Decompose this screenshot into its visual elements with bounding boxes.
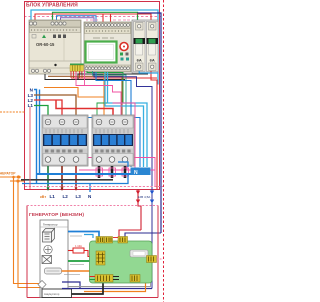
wire gen blue second	[84, 235, 93, 239]
labels L1 L2 L3 N bottom	[40, 194, 92, 199]
svg-text:Генератор: Генератор	[43, 223, 58, 227]
relay OR-60-15 top terminals	[29, 22, 66, 25]
PCB bottom-right connector	[130, 275, 140, 283]
svg-text:N: N	[134, 170, 138, 176]
relay OR-60-15 body	[29, 20, 81, 74]
controller bottom terminals	[85, 67, 129, 70]
svg-text:1 10А: 1 10А	[75, 244, 82, 248]
svg-text:12В 4,5А: 12В 4,5А	[138, 195, 152, 199]
wire L1 green	[34, 106, 48, 117]
motor circle	[44, 245, 52, 253]
wire pink dashed right	[157, 258, 164, 260]
relay lower dot	[54, 64, 56, 66]
PCB relay	[130, 250, 148, 257]
svg-text:ГЕНЕРАТОР (БЕНЗИН): ГЕНЕРАТОР (БЕНЗИН)	[29, 212, 84, 218]
wire red stub pcb	[113, 237, 118, 239]
fuse F1	[68, 244, 90, 257]
wire red top bus	[35, 14, 151, 23]
wire pink dashed mid	[25, 186, 163, 188]
wire orange down left A	[14, 177, 41, 284]
breaker QF2	[147, 22, 159, 72]
wire orange down left B	[18, 181, 40, 288]
wire blue lower	[22, 162, 128, 192]
controller LCD	[86, 42, 117, 63]
generator inner unit	[40, 220, 68, 298]
wire navy under pcb	[62, 288, 152, 290]
svg-text:6A: 6A	[150, 58, 155, 63]
controller knob	[120, 43, 128, 51]
PCB inner terminal	[96, 251, 105, 265]
battery box	[42, 289, 72, 298]
pink terminal wraps	[96, 168, 129, 176]
wire L2 red	[34, 100, 62, 116]
breaker QF1	[134, 22, 146, 72]
wire green controller out	[87, 71, 123, 116]
wire cyan to N	[105, 72, 147, 167]
wire blue top	[57, 16, 97, 23]
contactor KM1	[42, 115, 88, 166]
controller tiny text	[93, 37, 114, 39]
wire blue N bus thick	[37, 173, 132, 175]
wire orange under pcb	[84, 279, 146, 292]
svg-text:ГЕНЕРАТОР: ГЕНЕРАТОР	[0, 172, 16, 176]
wire navy controller out	[94, 72, 152, 289]
svg-text:кВт: кВт	[40, 195, 46, 199]
wire red vert left	[29, 107, 31, 189]
svg-text:L3: L3	[76, 194, 82, 199]
wire L1 out green	[47, 166, 49, 189]
wire L3 brown	[34, 95, 76, 116]
wire pink controls	[45, 70, 155, 187]
wire red from relay terminals	[71, 71, 157, 78]
wire L3 out dark red	[75, 166, 77, 189]
wire gen orange out	[62, 270, 90, 272]
label stubs grey	[64, 236, 84, 275]
svg-text:Аккумулятор: Аккумулятор	[44, 292, 60, 296]
border dashed top	[24, 16, 163, 18]
svg-text:БЛОК УПРАВЛЕНИЯ: БЛОК УПРАВЛЕНИЯ	[26, 2, 78, 8]
wire black bus	[45, 74, 148, 80]
wire gen blue out	[68, 232, 99, 239]
wire black battery	[72, 283, 104, 295]
wire grey under pcb	[68, 263, 151, 287]
svg-text:L2: L2	[63, 194, 69, 199]
labels N L3 L2 L1	[28, 87, 34, 108]
wire gen navy stub	[62, 282, 80, 289]
wire orange bus	[44, 72, 104, 116]
controller buttons	[120, 53, 129, 61]
PCB top terminal B	[118, 237, 128, 244]
wire L2 red branch to KM2	[56, 100, 113, 116]
alternator cube	[43, 229, 55, 243]
generator box	[27, 206, 158, 298]
relay yellow terminal block	[70, 64, 84, 72]
wire teal controller out	[93, 71, 127, 116]
PCB right connector	[147, 256, 157, 263]
contactor KM2	[92, 115, 134, 166]
relay indicator icons	[32, 35, 66, 39]
svg-text:6A: 6A	[137, 58, 142, 63]
wire violet top	[61, 18, 95, 23]
PCB board	[90, 241, 153, 283]
fuel valve diamond	[38, 281, 46, 289]
battery feed red with arrows	[136, 189, 141, 230]
wire red to PCB top	[119, 230, 141, 237]
wire N blue left	[34, 90, 40, 184]
wire L2 out maroon	[61, 166, 63, 189]
coil component	[42, 256, 52, 264]
svg-text:L1: L1	[28, 103, 34, 108]
controller top terminals	[85, 24, 129, 27]
battery feed navy with arrows	[150, 191, 154, 204]
border dashed right	[163, 0, 165, 302]
node N box	[131, 168, 151, 176]
wire cyan top bus	[31, 10, 158, 85]
controller body	[84, 22, 131, 72]
wire red breaker QF2 bottom	[151, 71, 157, 189]
wire blue to N box top	[84, 72, 140, 167]
breaker box	[132, 20, 158, 73]
wire black return	[21, 179, 113, 181]
node orange junctions	[0, 172, 24, 183]
wire navy top right	[138, 13, 162, 233]
svg-text:L1: L1	[50, 194, 56, 199]
svg-text:OR-60-15: OR-60-15	[36, 42, 55, 47]
wire blue breaker QF1 bottom	[139, 71, 158, 73]
PCB bottom terminal	[95, 275, 113, 283]
wire gen green out	[68, 260, 90, 262]
controller pink marks	[86, 19, 130, 21]
PCB top terminal A	[96, 237, 113, 244]
wire navy to PCB top	[125, 233, 161, 237]
wire KM2 black outs	[99, 166, 125, 178]
relay bottom terminals	[31, 69, 50, 72]
wire orange dashed input	[0, 111, 25, 113]
control unit box	[25, 2, 160, 190]
wire stubs pcb bottom	[90, 277, 120, 280]
wire green top bus	[53, 12, 138, 23]
muffler box	[45, 268, 62, 274]
wire brown bus	[48, 76, 122, 116]
